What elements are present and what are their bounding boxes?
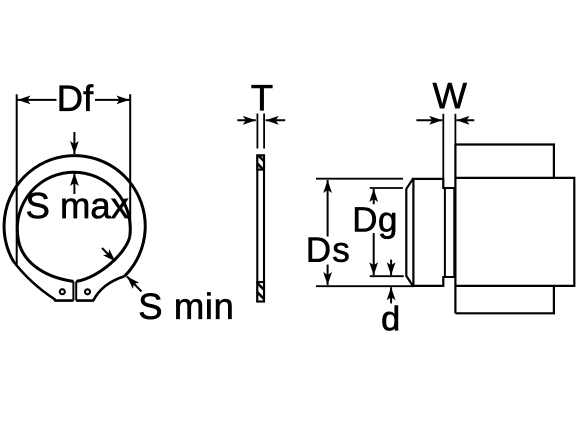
S min label [140,292,232,319]
shaft top edge (land) [412,178,443,180]
W extension line left [442,114,444,178]
Ds bottom extension line [316,285,414,287]
right lug hole [85,289,90,294]
chamfer boundary line [412,179,414,286]
section body outline [257,155,264,301]
right lug outer edge [93,276,124,300]
Df dimension extension line right [129,94,131,222]
groove left wall upper [442,178,444,189]
Dg upper arrow [373,189,375,204]
Ds label [309,238,349,262]
left lug hole [60,289,65,294]
top hatched section [257,155,264,169]
ring inner edge taper right [76,236,130,281]
Df label [60,84,94,110]
W label [433,83,467,108]
Dg lower arrow [373,233,375,275]
retained element bottom block [455,286,554,313]
ring inner edge taper left [18,236,74,281]
W right arrow [457,119,475,121]
left lug bottom [54,299,73,302]
shaft end land with chamfers [406,179,413,286]
Dg top extension line [370,187,403,189]
S max inner arrow (inside, pointing up at inner circle) [73,173,75,194]
Ds top extension line [316,178,403,180]
W extension line right [454,114,456,145]
Df dimension extension line left [16,94,18,266]
gap right wall [75,281,77,300]
groove bottom rectangle [445,188,454,277]
gap left wall [72,281,74,300]
bottom hatched section [257,282,264,302]
S chord arrow pointing down-right at inner edge (lower right) [102,248,115,261]
T extension line left [256,114,258,149]
S min arrow pointing up-left at outer circle [127,277,142,292]
T label [252,85,273,110]
T left arrow [237,119,256,121]
ring outer arc [4,156,145,277]
T right arrow [266,119,286,121]
groove left wall lower [442,276,444,287]
d upper arrow pointing down to groove bottom line [390,260,392,276]
d label [383,306,398,331]
S max top arrow (outside, pointing down at outer circle) [73,132,75,154]
shaft bottom edge (land) [412,285,443,287]
right lug bottom [76,299,94,302]
d lower arrow pointing up to shaft bottom line [390,287,392,303]
left lug outer edge [14,262,55,301]
Df dimension line with arrows [18,99,57,101]
Dg label [355,207,395,238]
retained element left face / groove right wall [454,145,456,314]
shaft body rectangle right of groove [455,178,574,286]
S max label [27,193,128,219]
retained element top block [455,145,554,178]
W left arrow [416,119,442,121]
Ds dimension line lower with arrow [327,265,329,285]
Ds dimension line upper with arrow [327,180,329,237]
ring inner arc [17,172,130,236]
T extension line right [263,114,265,149]
Dg bottom extension line [370,275,404,277]
